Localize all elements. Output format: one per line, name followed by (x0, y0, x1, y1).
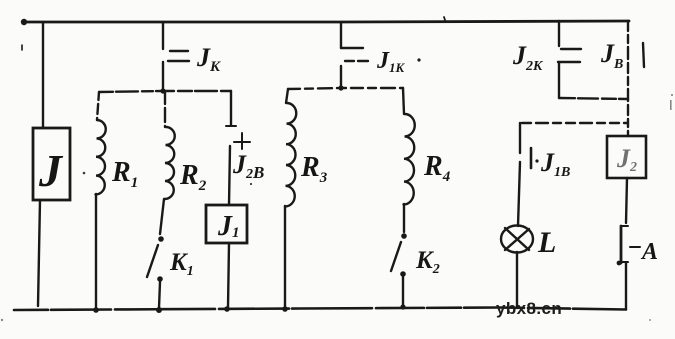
switch K2 (403, 204, 405, 232)
svg-text:ybx8.cn: ybx8.cn (496, 299, 562, 318)
svg-text:J2K: J2K (512, 41, 544, 74)
svg-text:J1: J1 (217, 211, 240, 242)
wire J2 to button (626, 178, 627, 223)
relay J box (33, 128, 70, 200)
resistor R4 (403, 88, 404, 114)
svg-text:A: A (640, 239, 658, 265)
button A (621, 225, 628, 227)
contact J1K (340, 23, 342, 48)
wire lamp to bus (516, 252, 518, 308)
svg-text:K2: K2 (415, 247, 440, 277)
contact J2K (558, 21, 560, 46)
svg-text:R4: R4 (423, 151, 451, 185)
relay J2 box (607, 136, 646, 178)
svg-text:J2B: J2B (232, 150, 264, 182)
wire J to bottom bus (38, 200, 40, 306)
resistor R2 (164, 92, 166, 127)
wire rail R1-R2-J2B (99, 91, 231, 92)
resistor R1 (97, 92, 99, 120)
contact J2B (230, 91, 232, 125)
svg-text:J: J (38, 145, 64, 196)
wire stray tick above bus (444, 17, 445, 20)
wire stray tick left margin (21, 45, 23, 50)
svg-text:R1: R1 (111, 157, 138, 191)
svg-text:K1: K1 (169, 249, 194, 279)
relay J1 box (206, 205, 247, 243)
wire bottom bus (14, 308, 626, 311)
wire J1 to bottom bus (228, 243, 229, 308)
svg-text:R2: R2 (179, 160, 207, 194)
wire rail J1B (dashed) (522, 122, 627, 124)
wire speck marks (scan noise) (1, 94, 673, 321)
resistor R3 (286, 89, 288, 103)
svg-text:L: L (537, 226, 556, 259)
switch K1 (160, 199, 164, 234)
svg-text:J2: J2 (616, 144, 637, 175)
contact JB bar (643, 43, 644, 67)
wire rail R3-R4 (dashed) (288, 88, 403, 89)
svg-text:JK: JK (196, 43, 221, 75)
wire left main vertical (42, 22, 44, 128)
svg-text:R3: R3 (300, 152, 328, 186)
wire JB vertical (dashed) (627, 21, 629, 136)
svg-text:J1B: J1B (540, 148, 570, 180)
node left terminal dot (21, 19, 27, 25)
contact J1B (519, 123, 521, 153)
contact JK (162, 22, 164, 49)
lamp L (501, 226, 533, 253)
wire top bus (24, 21, 629, 22)
svg-text:JB: JB (600, 39, 623, 72)
node bus junctions (93, 307, 99, 313)
svg-text:J1K: J1K (376, 48, 406, 75)
